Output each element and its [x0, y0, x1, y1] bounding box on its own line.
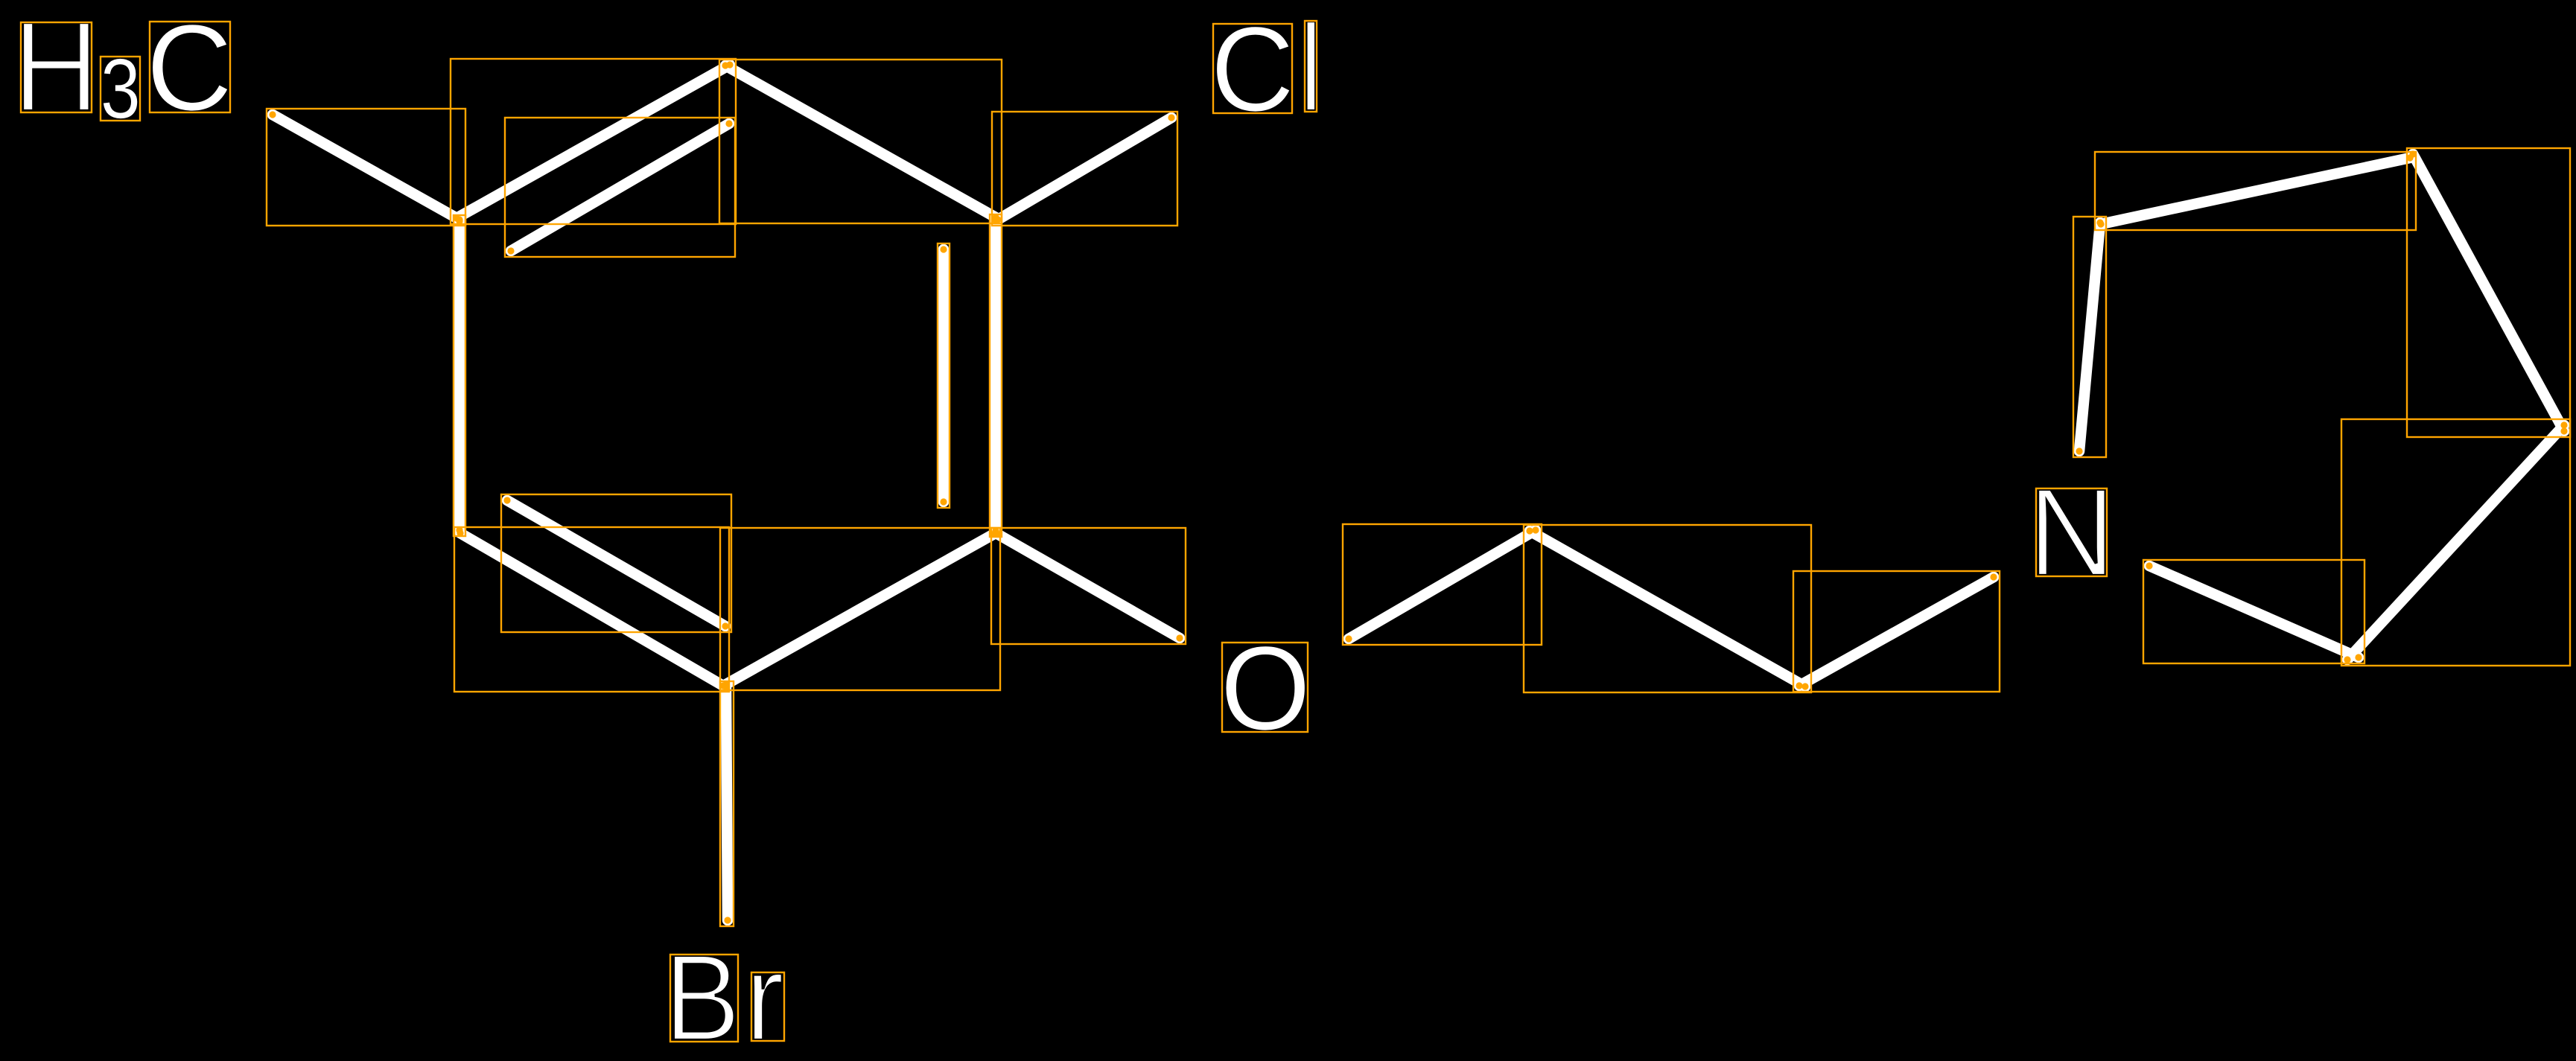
svg-text:H: H	[13, 0, 100, 138]
bond C1=C2 main	[457, 65, 730, 218]
annotation box for bond C2-C3	[719, 60, 1002, 223]
endpoint dots of bond C1-CH3 stub	[269, 111, 462, 223]
annotation box for bond C5-Br stub	[720, 681, 734, 926]
bond O-C7 stub	[1349, 530, 1536, 639]
svg-text:O: O	[1220, 621, 1311, 755]
annotation box for bond C9-C10	[2095, 152, 2416, 230]
svg-text:C: C	[146, 0, 233, 136]
annotation box for bond C1=C2 main	[451, 59, 736, 224]
bond C5=C6 inner	[507, 500, 725, 626]
annotation box for bond C4-C5	[720, 528, 1000, 690]
bond C4-C5	[726, 534, 994, 684]
annotation box for bond O-C7 stub	[1343, 524, 1542, 645]
endpoint dots of bond C6-C1	[456, 217, 462, 533]
annotation box for bond C12-N stub	[2143, 560, 2364, 663]
annotation box for bond C3=C4 inner	[938, 243, 950, 508]
endpoint dots of bond C11-C12	[2344, 421, 2567, 663]
annotation box for bond C1=C2 inner	[505, 118, 735, 257]
endpoint dots of bond C8-N stub	[1796, 573, 1997, 689]
endpoint dots of bond C1=C2 inner	[507, 120, 732, 254]
annotation box for label B of Br	[670, 955, 738, 1042]
bond N-C9 stub	[2079, 223, 2100, 451]
annotation box for label C of H3C	[150, 22, 230, 112]
endpoint dots of bond C5=C6 inner	[503, 497, 728, 629]
bond C4-O stub	[997, 534, 1180, 638]
endpoint dots of bond C3=C4 inner	[940, 246, 947, 505]
endpoint dots of bond N-C9 stub	[2076, 219, 2103, 454]
bond C1=C2 inner	[511, 124, 729, 251]
annotation box for bond C5-C6 main	[454, 527, 729, 692]
endpoint dots of bond C9-C10	[2097, 154, 2413, 227]
annotation box for bond C3=C4 main	[990, 214, 1002, 537]
endpoint dots of bond O-C7 stub	[1345, 526, 1539, 642]
endpoint dots of bond C2-C3	[722, 62, 999, 220]
annotation box for bond C10-C11	[2407, 148, 2570, 437]
svg-text:N: N	[2028, 463, 2116, 603]
endpoint dots of bond C1=C2 main	[453, 61, 733, 221]
bond C10-C11	[2413, 154, 2564, 431]
annotation box for label l of Cl	[1305, 21, 1317, 112]
annotation box for bond C4-O stub	[991, 528, 1186, 644]
bond C3=C4 main	[990, 220, 1002, 531]
annotation box for bond C3-Cl stub	[992, 112, 1177, 226]
annotation box for label H of H3C	[21, 22, 92, 112]
endpoint dots of bond C12-N stub	[2146, 562, 2362, 660]
endpoint dots of bond C3-Cl stub	[994, 114, 1174, 223]
annotation box for bond C7-C8	[1524, 525, 1811, 692]
svg-text:C: C	[1210, 1, 1294, 136]
endpoint dots of bond C10-C11	[2409, 150, 2567, 434]
bond C12-N stub	[2149, 566, 2359, 657]
annotation box for label C of Cl	[1213, 24, 1292, 113]
endpoint dots of bond C4-O stub	[993, 530, 1183, 641]
annotation box for bond C5=C6 inner	[501, 494, 731, 632]
endpoint dots of bond C5-C6 main	[457, 529, 726, 689]
bond C7-C8	[1530, 531, 1805, 686]
annotation box for bond C11-C12	[2341, 419, 2570, 666]
annotation box for bond C8-N stub	[1793, 571, 2000, 692]
annotation box for label N amine	[2036, 488, 2107, 576]
bond C2-C3	[725, 66, 996, 217]
bond C6-C1	[454, 221, 465, 530]
endpoint dots of bond C3=C4 main	[992, 217, 999, 534]
annotation box for label O ether	[1222, 643, 1308, 732]
bond C1-CH3 stub	[273, 115, 459, 220]
endpoint dots of bond C4-C5	[722, 530, 997, 687]
annotation box for bond N-C9 stub	[2073, 217, 2106, 457]
annotation box for bond C1-CH3 stub	[267, 109, 465, 226]
endpoint dots of bond C7-C8	[1526, 527, 1808, 689]
bond C11-C12	[2347, 425, 2564, 660]
bond C8-N stub	[1799, 577, 1994, 686]
annotation box for label 3 of H3C	[101, 57, 140, 121]
bond C5-Br stub	[726, 687, 728, 920]
annotation box for bond C6-C1	[454, 215, 465, 536]
annotation box for label r of Br	[751, 972, 784, 1041]
endpoint dots of bond C5-Br stub	[722, 684, 731, 923]
bond C9-C10	[2101, 158, 2410, 224]
bond C3=C4 inner	[938, 249, 950, 502]
bond C3-Cl stub	[998, 118, 1171, 220]
bond C5-C6 main	[460, 533, 723, 686]
